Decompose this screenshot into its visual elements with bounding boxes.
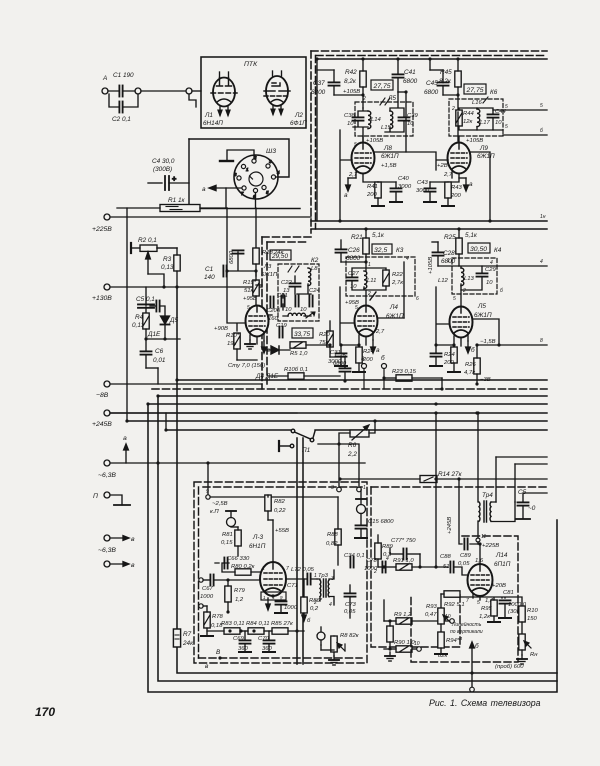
wire 6.3V feed [110, 463, 365, 494]
coil L14 [368, 111, 371, 129]
svg-text:Л3: Л3 [263, 264, 272, 270]
svg-text:С89: С89 [460, 553, 472, 559]
wire tube L9 leads [406, 136, 490, 221]
svg-text:1,6: 1,6 [475, 558, 484, 564]
heater wire loop x=303 [302, 438, 304, 664]
resistor R24b 200 [451, 347, 457, 363]
svg-text:10: 10 [347, 121, 354, 127]
dashed section border: left vertical double at x=311 [310, 51, 312, 233]
svg-text:С29: С29 [485, 267, 497, 273]
heater wire loop x=297 [296, 438, 298, 664]
wiper arrow R2 [146, 252, 164, 287]
svg-text:Д1Е: Д1Е [147, 331, 161, 338]
wire bus y380 [177, 379, 547, 381]
svg-text:~6,3В: ~6,3В [98, 547, 116, 554]
svg-text:С67: С67 [202, 586, 214, 592]
svg-text:R23 0,15: R23 0,15 [392, 369, 417, 375]
wire IF bus y221 [311, 220, 547, 222]
resistor R6 2.2 potentiometer [350, 430, 369, 437]
svg-text:8,2к: 8,2к [439, 78, 452, 85]
svg-text:200: 200 [450, 193, 462, 199]
svg-text:В: В [216, 649, 221, 656]
svg-text:С77* 750: С77* 750 [391, 538, 416, 544]
Sh3 connector frame [189, 139, 300, 209]
svg-text:С4 30,0: С4 30,0 [152, 158, 175, 165]
svg-text:Л2: Л2 [294, 112, 303, 119]
svg-text:2,7: 2,7 [375, 329, 385, 335]
svg-text:+105В: +105В [343, 89, 360, 95]
svg-text:а: а [344, 192, 348, 199]
svg-text:П1: П1 [302, 447, 311, 454]
svg-text:29,50: 29,50 [271, 253, 288, 260]
svg-text:+95В: +95В [243, 296, 257, 302]
svg-text:R89: R89 [382, 544, 394, 550]
svg-text:К6: К6 [490, 89, 498, 96]
diode D4 [266, 346, 290, 354]
resistor R92 5.1 [444, 591, 460, 597]
node 1 terminal [357, 487, 362, 492]
node a arrow out of Sh3 [209, 185, 242, 190]
svg-text:б: б [540, 128, 543, 134]
wire rail x=166 [165, 413, 167, 430]
wire L3 leads [227, 271, 272, 344]
capacitor C2 0.1 [119, 102, 122, 113]
resistor R89 0.3 [375, 543, 381, 559]
diode D5 D1E [161, 316, 170, 339]
tube L9 6Zh1P [448, 143, 471, 174]
svg-text:4: 4 [386, 556, 389, 562]
svg-text:51: 51 [443, 564, 450, 570]
svg-text:7: 7 [466, 598, 469, 604]
node 10 terminal [450, 619, 455, 624]
node 3 terminal [337, 487, 342, 492]
wires K4 [459, 266, 547, 306]
terminal +225V [104, 214, 110, 220]
svg-text:2: 2 [367, 291, 371, 297]
svg-text:0,2: 0,2 [310, 606, 319, 612]
svg-text:R85 27к: R85 27к [271, 621, 293, 627]
svg-text:R90 1,0: R90 1,0 [394, 640, 415, 646]
svg-text:10: 10 [407, 121, 414, 127]
wires Tr3 [317, 570, 334, 605]
svg-text:Л14: Л14 [495, 552, 508, 559]
svg-text:К2: К2 [311, 257, 319, 264]
svg-text:R95: R95 [481, 606, 493, 612]
svg-text:а: а [469, 181, 473, 188]
resistor R86 0.2 [301, 597, 307, 613]
svg-text:6Н14П: 6Н14П [203, 120, 223, 127]
svg-text:+130В: +130В [92, 295, 112, 302]
svg-text:L11: L11 [367, 278, 376, 284]
wires K3 [352, 262, 404, 318]
terminal +245V [104, 410, 110, 416]
svg-text:С1 190: С1 190 [113, 72, 134, 79]
svg-text:6Ж1П: 6Ж1П [381, 153, 399, 160]
wires K2 [256, 266, 311, 316]
wire antenna loop [108, 91, 186, 107]
svg-text:1: 1 [314, 573, 317, 579]
coil L13 [461, 268, 464, 286]
svg-text:ПТК: ПТК [244, 61, 258, 68]
capacitor C40 3000 [391, 188, 402, 191]
tube L4 [355, 306, 378, 337]
svg-text:С38: С38 [344, 113, 356, 119]
svg-text:3000: 3000 [328, 359, 342, 365]
svg-text:R19*: R19* [243, 280, 257, 286]
svg-text:R45: R45 [440, 69, 452, 76]
tube L14 6P1P [468, 564, 493, 596]
svg-text:С41: С41 [404, 69, 416, 76]
terminal v1 arrow [104, 535, 110, 541]
resistor R41 200 [375, 182, 381, 198]
svg-text:С26: С26 [348, 247, 360, 254]
svg-text:−1,5В: −1,5В [480, 339, 496, 345]
svg-text:10: 10 [285, 307, 292, 313]
node a arrow cathode L4 [371, 340, 376, 353]
capacitor C43 3000 [425, 188, 436, 191]
svg-text:1000: 1000 [200, 594, 214, 600]
capacitor C29 10 [477, 273, 488, 276]
wire: R7 branch loop (inner) [177, 287, 557, 673]
wire bus y404 [148, 403, 547, 405]
wire -1.5V bus [477, 344, 547, 346]
svg-text:7: 7 [286, 566, 289, 572]
capacitor C32 3000 [431, 353, 442, 356]
node dots on buses [146, 402, 149, 405]
svg-text:51к: 51к [244, 288, 254, 294]
pin box under tube [261, 592, 286, 600]
svg-text:+90В: +90В [214, 326, 228, 332]
wire rail x=117 [126, 208, 128, 422]
svg-text:R78: R78 [212, 614, 224, 620]
svg-text:R5 1,0: R5 1,0 [290, 351, 308, 357]
capacitor C6 0.01 [141, 351, 152, 354]
wire bus y421 [127, 420, 547, 422]
Sh3 connector circle [234, 155, 280, 199]
wire Sh3 pin4 stub [276, 176, 279, 178]
svg-text:Л1: Л1 [204, 112, 213, 119]
svg-text:R14 27к: R14 27к [438, 471, 463, 478]
svg-text:0,82: 0,82 [326, 541, 338, 547]
svg-text:Л-3: Л-3 [252, 534, 264, 541]
svg-text:R7: R7 [183, 631, 192, 638]
terminal P [104, 492, 110, 498]
wire P bracket [110, 495, 130, 505]
svg-text:2: 2 [373, 569, 377, 575]
svg-text:10: 10 [414, 641, 420, 647]
svg-text:+55В: +55В [275, 528, 289, 534]
svg-text:1000: 1000 [284, 605, 298, 611]
SECTION:LEFTRAIL [110, 208, 365, 494]
svg-text:5,1к: 5,1к [372, 232, 385, 239]
svg-text:+225В: +225В [482, 543, 499, 549]
svg-text:б: б [307, 618, 311, 624]
ground in Sh3 [220, 150, 254, 161]
svg-text:6800: 6800 [311, 89, 326, 96]
svg-text:160: 160 [268, 316, 279, 322]
terminal +130V [104, 284, 110, 290]
dashed bus across middle y=389 [152, 388, 547, 390]
svg-text:1: 1 [263, 595, 266, 600]
svg-text:+105В: +105В [366, 138, 383, 144]
svg-text:6800: 6800 [229, 250, 235, 264]
svg-text:1: 1 [368, 262, 371, 268]
capacitor C44 10 [488, 114, 499, 117]
node [135, 88, 141, 94]
frequency box 32.5 [372, 244, 392, 254]
svg-text:9: 9 [206, 489, 209, 495]
svg-text:в: в [205, 663, 209, 670]
svg-text:170: 170 [35, 705, 55, 719]
frequency box 30.50 [468, 243, 490, 253]
svg-text:10: 10 [300, 307, 307, 313]
tube L8 6Zh1P [352, 143, 375, 174]
node b arrow down line [470, 642, 475, 687]
node bus junctions [475, 411, 478, 414]
wire Sh3 video feed down [226, 208, 228, 271]
node input to PTK [186, 88, 192, 94]
svg-text:~0: ~0 [528, 505, 536, 512]
svg-text:+245В: +245В [92, 421, 112, 428]
svg-text:200: 200 [366, 192, 378, 198]
svg-text:0,22: 0,22 [274, 508, 286, 514]
svg-text:Тр4: Тр4 [482, 492, 493, 499]
svg-text:2: 2 [462, 288, 466, 294]
capacitor C69 360 [240, 640, 251, 643]
resistor R43 200 [445, 182, 451, 198]
wire bus y396 [158, 395, 547, 397]
svg-text:6П1П: 6П1П [494, 561, 511, 568]
svg-text:5: 5 [453, 296, 456, 302]
capacitor C27 10 [347, 277, 358, 280]
node a arrow cathode L9 [459, 178, 468, 191]
svg-text:+2В: +2В [437, 163, 448, 169]
svg-text:R21: R21 [351, 234, 363, 241]
resistor R10 150 [519, 606, 525, 622]
svg-text:R86*: R86* [309, 598, 323, 604]
svg-text:+20В: +20В [492, 583, 506, 589]
svg-text:С39: С39 [407, 113, 419, 119]
svg-text:5: 5 [354, 142, 357, 148]
terminal -8V [104, 381, 110, 387]
svg-text:L12: L12 [438, 278, 449, 284]
svg-text:0,05: 0,05 [458, 561, 470, 567]
svg-text:С70: С70 [258, 636, 270, 642]
electrolytic node [226, 511, 236, 527]
capacitor cathode 1000 [276, 601, 287, 604]
capacitor C70 360 [264, 640, 275, 643]
switch P1 [279, 429, 315, 451]
resistor R79 1.2 [225, 586, 231, 602]
svg-text:R91 1,0: R91 1,0 [393, 558, 414, 564]
svg-text:С81: С81 [503, 590, 514, 596]
vertical output dashed box [411, 536, 518, 662]
svg-text:к.П: к.П [210, 509, 219, 515]
svg-text:С88: С88 [440, 554, 452, 560]
svg-text:5: 5 [477, 600, 480, 606]
svg-text:6800: 6800 [424, 89, 439, 96]
coil bottom [288, 313, 306, 316]
svg-text:0,15: 0,15 [221, 540, 233, 546]
svg-text:0,13: 0,13 [161, 264, 174, 271]
svg-text:Линейность: Линейность [451, 621, 482, 628]
svg-text:5: 5 [505, 104, 508, 110]
capacitor C26 6800 [336, 249, 347, 252]
svg-text:5: 5 [247, 305, 250, 311]
svg-text:1: 1 [262, 566, 265, 572]
svg-text:6Ж1П: 6Ж1П [477, 153, 495, 160]
capacitor C73 0.05 [345, 593, 356, 596]
node a arrow [124, 444, 129, 463]
volume pot node [317, 627, 325, 645]
svg-text:Л5: Л5 [477, 303, 486, 310]
wire R1 line [117, 207, 227, 209]
svg-text:а: а [202, 186, 206, 193]
wire tube L8 leads [340, 92, 406, 221]
svg-text:А: А [102, 75, 107, 82]
svg-text:R93: R93 [426, 604, 438, 610]
svg-text:2,7к: 2,7к [391, 280, 403, 286]
svg-text:(300В): (300В) [153, 166, 172, 173]
svg-text:+245В: +245В [447, 517, 453, 534]
svg-text:4: 4 [277, 170, 280, 175]
svg-text:С73: С73 [345, 602, 357, 608]
filter K2 dashed box [278, 264, 319, 321]
terminal v2 arrow [104, 561, 110, 567]
capacitor C17 6800 vertical label [233, 250, 244, 253]
svg-text:R94*: R94* [446, 638, 460, 644]
svg-text:200: 200 [443, 360, 455, 366]
wire bus y430 [166, 429, 547, 431]
svg-text:4: 4 [540, 259, 543, 265]
svg-text:4: 4 [406, 256, 409, 262]
svg-text:(проб) 600: (проб) 600 [495, 664, 524, 670]
svg-text:3000: 3000 [416, 188, 430, 194]
filter K3 dashed box [346, 257, 415, 296]
resistor R26 4.7k [474, 358, 480, 374]
svg-text:4: 4 [490, 260, 493, 266]
svg-text:а: а [123, 435, 127, 442]
wire top bus [317, 58, 547, 60]
svg-text:6800: 6800 [346, 255, 361, 262]
svg-text:R24: R24 [444, 352, 456, 358]
sync section dashed box [371, 487, 547, 647]
svg-text:6800: 6800 [403, 78, 418, 85]
svg-text:R92 5,1: R92 5,1 [444, 602, 465, 608]
svg-text:L17: L17 [480, 120, 491, 126]
svg-text:Л9: Л9 [479, 145, 488, 152]
wire IF bus y229 [311, 228, 547, 230]
svg-text:5: 5 [540, 103, 543, 109]
svg-text:L8: L8 [311, 266, 318, 272]
ground L3 cathode [245, 340, 255, 349]
svg-text:1н: 1н [540, 214, 546, 220]
svg-text:R41: R41 [367, 184, 378, 190]
solid outer frame of lower section [148, 287, 557, 692]
svg-text:С6: С6 [155, 348, 164, 355]
terminal 6.3V [104, 460, 110, 466]
svg-text:R8 82к: R8 82к [340, 633, 359, 639]
resistor R20 75k hatched [327, 331, 333, 347]
wire L5 leads [436, 287, 499, 346]
svg-text:Л4: Л4 [389, 304, 398, 311]
svg-text:П: П [93, 493, 98, 500]
node 11 +225V [476, 538, 480, 542]
svg-text:5: 5 [355, 305, 358, 311]
coil L8 [308, 268, 311, 286]
node 8 terminal + resistor R78 0.18 [199, 604, 203, 608]
capacitor C89 0.05 [464, 539, 467, 550]
svg-text:4,7к: 4,7к [464, 370, 475, 376]
node c arrow cathode L3 [262, 341, 267, 353]
svg-text:R20: R20 [319, 332, 331, 338]
frequency box 27.75 second [464, 84, 486, 94]
dashed section border: jog to x=262 at y=233 [262, 236, 311, 238]
svg-text:С43: С43 [417, 180, 429, 186]
svg-text:R22: R22 [392, 272, 404, 278]
wire audio feed y497 [210, 496, 338, 498]
wire video feed x436 [435, 413, 437, 567]
svg-text:5: 5 [505, 124, 508, 130]
svg-text:К3: К3 [396, 247, 404, 254]
svg-text:6Ф1П: 6Ф1П [290, 120, 307, 127]
dashed section border: RF/IF outer top double line [311, 50, 547, 52]
resistor R22 2.7k hatched [383, 270, 389, 286]
node a arrow cathode L8 [346, 178, 356, 191]
svg-text:R2 0,1: R2 0,1 [138, 237, 157, 244]
svg-text:−8В: −8В [96, 392, 109, 399]
wire: ground return loop (outermost) [148, 404, 557, 692]
svg-text:С37: С37 [313, 80, 325, 87]
wire L4 leads [340, 287, 404, 345]
resistor R82 0.22 [265, 495, 271, 511]
svg-text:L14: L14 [371, 117, 382, 123]
svg-text:Тр3: Тр3 [318, 573, 329, 579]
svg-text:R88: R88 [327, 532, 339, 538]
svg-text:12к: 12к [463, 119, 473, 125]
svg-text:R43: R43 [451, 185, 463, 191]
svg-text:Сту 7,0 (15б): Сту 7,0 (15б) [228, 363, 265, 369]
svg-text:Л8: Л8 [383, 145, 392, 152]
node 9 terminal in audio box [206, 495, 210, 499]
capacitor C38 10 [353, 117, 364, 120]
capacitor C39 10 [399, 117, 410, 120]
node 5 terminal + capacitor C67 1000 [199, 578, 203, 582]
svg-text:10: 10 [495, 120, 502, 126]
svg-text:Рис. 1. Схема телевизора: Рис. 1. Схема телевизора [429, 698, 541, 708]
svg-text:С24: С24 [309, 288, 321, 294]
svg-text:3: 3 [331, 485, 334, 491]
wire R6 leads [318, 421, 375, 487]
svg-text:~2,5В: ~2,5В [212, 501, 228, 507]
wire: supply return loop (middle) [158, 396, 557, 681]
resistor R7 24k [173, 629, 180, 647]
capacitor C15 6800 electrolytic [356, 490, 366, 524]
svg-text:R42: R42 [345, 69, 357, 76]
svg-text:27,75: 27,75 [373, 83, 391, 90]
svg-text:6Ж1П: 6Ж1П [386, 313, 404, 320]
svg-text:1: 1 [447, 258, 450, 264]
svg-text:5,1к: 5,1к [465, 232, 478, 239]
tube L1 6N14P [211, 72, 237, 116]
audio section dashed box [194, 482, 367, 663]
antenna terminal [102, 88, 108, 94]
resistor R25 5.1k [456, 238, 462, 254]
svg-text:б: б [500, 288, 503, 294]
node bus joints [361, 57, 364, 60]
wire plate feed from Tr4 [459, 479, 480, 564]
svg-text:R79: R79 [234, 588, 246, 594]
